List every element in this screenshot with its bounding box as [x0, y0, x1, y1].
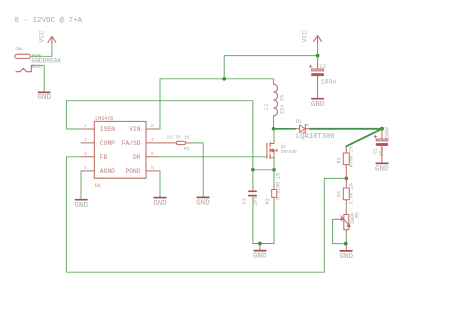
svg-text:8 - 12VDC @ 7+A: 8 - 12VDC @ 7+A: [15, 17, 83, 25]
svg-text:GND: GND: [196, 200, 210, 208]
ground symbol (PGND): [154, 197, 166, 199]
ground symbol (CN1): [39, 91, 50, 93]
wire R4 to R5: [345, 204, 347, 210]
svg-text:22u 7A: 22u 7A: [279, 94, 285, 114]
svg-text:1: 1: [84, 123, 87, 129]
svg-text:VCC: VCC: [39, 31, 46, 43]
wire switch node to diode (bold): [274, 128, 296, 130]
svg-text:FA/SD: FA/SD: [122, 140, 141, 147]
capacitor C1 plus mark: [374, 135, 377, 138]
svg-text:DR: DR: [133, 154, 141, 161]
wire sense bottom rail: [253, 243, 274, 245]
capacitor C3 plates: [249, 191, 256, 195]
wire AGND to ground: [80, 171, 82, 199]
svg-text:3.3k 1%: 3.3k 1%: [349, 183, 355, 204]
svg-text:0.0150 1%: 0.0150 1%: [275, 173, 281, 200]
wire VCC to rail: [317, 46, 319, 56]
svg-text:200V: 200V: [384, 127, 390, 139]
resistor R4: [343, 178, 349, 204]
ground symbol (sense): [259, 244, 261, 250]
svg-text:D1: D1: [296, 119, 302, 125]
svg-text:GND: GND: [153, 200, 167, 208]
svg-text:5: 5: [151, 165, 154, 171]
gndbreak squiggle: [16, 65, 34, 71]
svg-text:R5: R5: [355, 212, 361, 218]
svg-text:GND: GND: [32, 63, 43, 70]
ground symbol (C1): [376, 162, 388, 164]
wire R5 wiper to bottom: [333, 219, 347, 243]
capacitor C2 plates: [312, 69, 324, 76]
wire output diagonal to divider (bold): [346, 129, 382, 147]
svg-text:4: 4: [84, 165, 87, 171]
wire R1 to ground: [190, 143, 203, 197]
svg-text:CN1: CN1: [16, 48, 24, 52]
svg-text:R2: R2: [265, 198, 271, 204]
svg-text:PGND: PGND: [125, 168, 140, 175]
wire drain to switch node: [273, 129, 275, 139]
wire sense node horizontal: [253, 169, 274, 171]
wire VIN supply riser: [158, 56, 318, 129]
svg-text:U1: U1: [95, 183, 101, 189]
wire ISEN sense loop: [66, 101, 253, 170]
resistor R1: [158, 141, 190, 144]
svg-text:100u: 100u: [321, 78, 337, 85]
resistor R3: [343, 146, 349, 178]
svg-text:C3: C3: [242, 198, 248, 204]
svg-text:470k 1%: 470k 1%: [348, 146, 354, 167]
svg-text:L1: L1: [264, 104, 270, 110]
svg-text:8: 8: [151, 123, 154, 129]
junction node (switch node): [272, 127, 276, 131]
diode D1 LQA10T300: [295, 125, 310, 133]
svg-text:LQA10T300: LQA10T300: [296, 133, 335, 141]
capacitor C3 leads: [252, 170, 254, 244]
svg-text:C1: C1: [373, 148, 379, 154]
junction node (R5 bottom): [344, 242, 348, 246]
wire PWR to VCC: [30, 44, 52, 57]
capacitor C2 lead: [317, 56, 319, 69]
junction node (VIN rail): [222, 77, 226, 81]
pin leads U1: [81, 129, 158, 171]
svg-text:LM3478: LM3478: [95, 116, 113, 122]
ground symbol (R1): [197, 196, 209, 198]
trimmer R5: [336, 210, 351, 236]
svg-text:C2: C2: [320, 64, 326, 70]
junction node (divider tap): [344, 177, 348, 181]
capacitor C2 lower lead: [317, 76, 319, 98]
resistor R2: [273, 170, 275, 185]
junction node (output): [380, 127, 384, 131]
wire PGND to ground: [158, 171, 160, 197]
junction node (sense right): [272, 168, 276, 172]
junction node (VCC/C2): [316, 54, 320, 58]
svg-text:6: 6: [151, 151, 154, 157]
op-amp U1 LM3478 controller box: [94, 121, 146, 178]
svg-text:VIN: VIN: [129, 126, 141, 133]
svg-text:7: 7: [151, 137, 154, 143]
svg-text:COMP: COMP: [100, 140, 115, 147]
wire GNDBREAK to GND: [34, 65, 44, 91]
wire L1 to switch node: [273, 116, 275, 129]
supply symbol VCC (left): [48, 36, 56, 43]
svg-text:23.7k 1%: 23.7k 1%: [167, 135, 190, 141]
capacitor C1 lower lead: [381, 146, 383, 163]
ground symbol (R5): [345, 244, 347, 250]
svg-text:R3: R3: [336, 157, 342, 163]
svg-text:2: 2: [84, 137, 87, 143]
svg-text:R4: R4: [336, 191, 342, 197]
ground symbol (C2): [312, 98, 324, 100]
capacitor C2 plus mark: [309, 65, 312, 68]
wire diode to output node (bold): [310, 128, 382, 130]
wire FB feedback loop: [66, 157, 324, 272]
svg-text:GND: GND: [253, 253, 267, 261]
svg-text:IRF630: IRF630: [281, 150, 297, 155]
ground symbol (AGND): [76, 199, 88, 201]
svg-text:FB: FB: [100, 154, 108, 161]
supply symbol VCC (right): [314, 36, 322, 46]
svg-text:GND: GND: [37, 94, 51, 102]
svg-text:GND: GND: [311, 101, 325, 109]
svg-text:GND: GND: [339, 253, 353, 261]
capacitor C1 lead: [381, 129, 383, 139]
wire DR gate drive: [158, 156, 267, 158]
svg-text:GND: GND: [74, 202, 88, 210]
svg-text:R1: R1: [184, 146, 190, 152]
capacitor C1 plates: [376, 139, 388, 146]
svg-text:VCC: VCC: [302, 31, 309, 43]
wire source down: [273, 162, 275, 170]
svg-text:AGND: AGND: [100, 168, 115, 175]
connector CN1 pin PWR: [15, 54, 31, 58]
svg-text:GND: GND: [375, 166, 389, 174]
inductor L1: [274, 84, 278, 116]
transistor Q1 IRF630: [266, 143, 268, 158]
wire divider tap to FB riser: [324, 177, 346, 179]
svg-text:3: 3: [84, 151, 87, 157]
svg-text:ISEN: ISEN: [100, 126, 115, 133]
junction node (sense left): [251, 168, 255, 172]
svg-text:1n5: 1n5: [252, 196, 258, 205]
junction node (sense gnd): [258, 242, 262, 246]
